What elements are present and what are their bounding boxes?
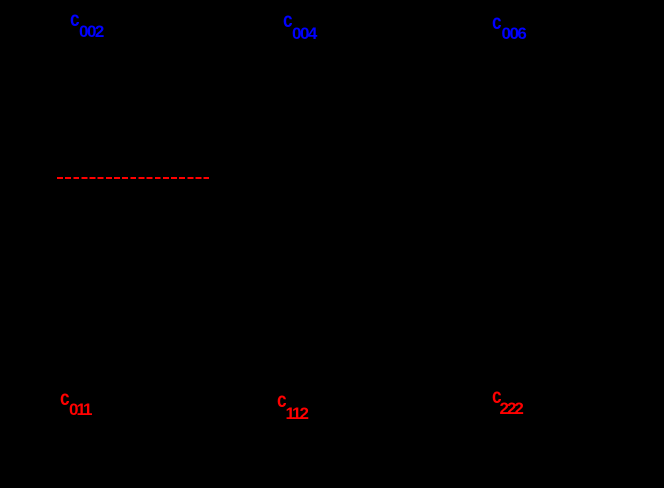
label c006 main "c" bbox=[492, 12, 502, 33]
label c002 subscript "002" bbox=[79, 23, 103, 40]
label c222 subscript "222" bbox=[500, 400, 522, 417]
label c002 main "c" bbox=[70, 9, 80, 30]
label c112 main "c" bbox=[277, 390, 287, 411]
label c222 main "c" bbox=[492, 386, 502, 407]
label c112 subscript "112" bbox=[286, 405, 307, 422]
red dashed horizontal line bbox=[57, 177, 209, 180]
label c004 subscript "004" bbox=[292, 25, 316, 42]
label c006 subscript "006" bbox=[502, 25, 526, 42]
label c004 main "c" bbox=[283, 10, 293, 31]
label c011 subscript "011" bbox=[69, 401, 90, 418]
label c011 main "c" bbox=[60, 388, 70, 409]
